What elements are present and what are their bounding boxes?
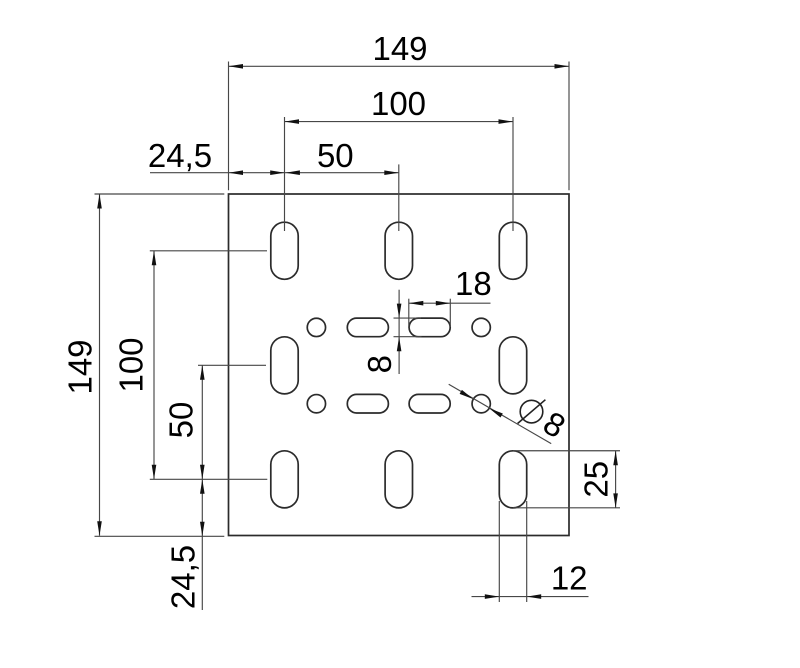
dim 100 top label <box>371 85 426 122</box>
dim 100 left arrow bottom <box>152 465 157 480</box>
dim 25 arrow bottom <box>613 493 618 508</box>
dim 100 top extension line left <box>284 117 286 231</box>
svg-text:149: 149 <box>372 30 427 67</box>
dim 8 arrow bottom <box>397 337 402 352</box>
slot 18x8 lower-left <box>347 394 388 413</box>
dim 24,5/50 top dimension line <box>150 172 399 174</box>
leader arrow lower <box>489 408 503 417</box>
slot 12x25 middle-right <box>499 337 526 394</box>
dim 149 top extension line left <box>228 62 230 191</box>
dim 8 extension line bottom <box>394 336 422 338</box>
dim 12 dimension line <box>472 596 589 598</box>
diameter symbol circle <box>520 400 543 423</box>
dim 18 label <box>455 265 492 302</box>
dim 100 top arrow right <box>499 119 514 124</box>
dim 50 left arrow top <box>200 365 205 380</box>
plate outline 149x149 <box>229 194 570 536</box>
svg-text:100: 100 <box>371 85 426 122</box>
dim 100 left dimension line <box>153 251 155 479</box>
svg-text:50: 50 <box>317 137 354 174</box>
slot 18x8 lower-right <box>409 394 450 413</box>
dim 100 left extension line bottom <box>150 478 267 480</box>
hole d8 upper-left <box>307 318 325 336</box>
dim 149 top extension line right <box>568 62 570 191</box>
dim 24,5 top arrow left <box>229 170 244 175</box>
svg-text:25: 25 <box>577 461 614 498</box>
slot 12x25 bottom-middle <box>385 451 412 508</box>
dim 100 left arrow top <box>152 251 157 265</box>
svg-text:149: 149 <box>62 339 99 394</box>
dim 149 left arrow bottom <box>97 521 102 536</box>
dim 8 dimension line <box>398 290 400 374</box>
dim 18 extension line right <box>449 299 451 327</box>
slot 12x25 top-middle <box>385 222 412 279</box>
slot 12x25 middle-left <box>271 337 298 394</box>
dim 50 left extension line top <box>198 364 266 366</box>
dim 50 top label <box>317 137 354 174</box>
dim 100 left label <box>113 337 150 392</box>
dim 149 left arrow top <box>97 194 102 209</box>
dim 50 top arrow left <box>285 170 300 175</box>
dim 12 arrow left <box>485 594 500 599</box>
svg-text:24,5: 24,5 <box>148 137 212 174</box>
svg-text:12: 12 <box>551 560 588 597</box>
dim 100 top arrow left <box>285 119 300 124</box>
diameter symbol slash <box>518 400 546 424</box>
dim 100 top dimension line <box>285 121 514 123</box>
dim 24,5 top arrow right <box>270 170 285 175</box>
leader arrow upper <box>460 390 474 399</box>
dim 149 left extension line top <box>95 193 225 195</box>
dim 18 arrow right <box>436 301 451 306</box>
dim 18 dimension line <box>409 302 491 304</box>
svg-text:18: 18 <box>455 265 492 302</box>
dim 24,5 bottom label <box>164 545 201 609</box>
slot 12x25 bottom-right <box>499 451 526 508</box>
svg-text:50: 50 <box>163 402 200 439</box>
dim 12 label <box>551 560 588 597</box>
dim 8 label <box>361 355 398 373</box>
dim 149 left extension line bottom <box>95 535 225 537</box>
dim 149 top arrow right <box>555 64 570 69</box>
dim 8 arrow top <box>397 304 402 319</box>
dim 100 left extension line top <box>150 250 267 252</box>
svg-text:8: 8 <box>361 355 398 373</box>
dim 25 extension line top <box>513 450 620 452</box>
leader label 8 <box>537 404 572 445</box>
slot 12x25 top-left <box>271 222 298 279</box>
hole d8 lower-left <box>307 395 325 413</box>
dim 50 top extension line <box>398 164 400 231</box>
dim 149 left dimension line <box>99 194 101 536</box>
dim 50 left dimension line <box>201 365 203 479</box>
dim 100 top extension line right <box>512 117 514 231</box>
dim 18 arrow left <box>409 301 424 306</box>
dim 12 extension line right <box>526 501 528 602</box>
dim 25 arrow top <box>613 451 618 465</box>
dim 149 top arrow left <box>229 64 244 69</box>
dim 25 extension line bottom <box>513 507 620 509</box>
svg-text:100: 100 <box>113 337 150 392</box>
dim 12 arrow right <box>527 594 542 599</box>
dim 12 extension line left <box>498 501 500 602</box>
dim 149 top label <box>372 30 427 67</box>
slot 18x8 upper-left <box>347 318 388 337</box>
dim 50 top arrow right <box>384 170 399 175</box>
svg-text:24,5: 24,5 <box>164 545 201 609</box>
dim 149 top dimension line <box>229 65 570 67</box>
dim 50 left label <box>163 402 200 439</box>
hole d8 upper-right <box>472 318 490 336</box>
dim 18 extension line left <box>408 299 410 328</box>
dim 24,5 top label <box>148 137 212 174</box>
slot 12x25 bottom-left <box>271 451 298 508</box>
dim 25 dimension line <box>615 451 617 508</box>
dim 24,5 bottom arrow bottom <box>200 522 205 537</box>
dim 24,5 bottom arrow top <box>200 479 205 494</box>
leader line d8 <box>449 384 552 443</box>
dim 50 left arrow bottom <box>200 465 205 480</box>
dim 25 label <box>577 461 614 498</box>
dim 8 extension line top <box>394 317 422 319</box>
hole d8 lower-right <box>472 395 490 413</box>
slot 12x25 top-right <box>499 222 526 279</box>
slot 18x8 upper-right <box>409 318 450 337</box>
dim 24,5 bottom dimension line <box>201 479 203 610</box>
dim 149 left label <box>62 339 99 394</box>
